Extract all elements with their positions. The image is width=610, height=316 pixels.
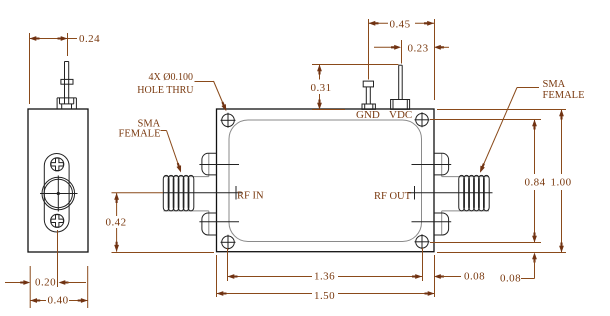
- label GND: [356, 109, 380, 121]
- main housing lid (inner rounded rectangle): [229, 120, 422, 242]
- left view top flange screw: [51, 158, 64, 171]
- svg-text:HOLE THRU: HOLE THRU: [137, 85, 194, 96]
- svg-text:0.45: 0.45: [390, 18, 411, 30]
- svg-text:4X Ø0.100: 4X Ø0.100: [149, 72, 193, 83]
- right SMA lug centerline marks: [412, 165, 452, 222]
- dimension 0.20 (bottom of left view): [5, 230, 86, 308]
- dimension 1.00 (right side): [437, 110, 572, 253]
- svg-text:0.84: 0.84: [525, 177, 546, 189]
- svg-text:1.50: 1.50: [314, 290, 335, 302]
- svg-text:0.23: 0.23: [408, 42, 429, 54]
- main housing outline: [217, 109, 435, 252]
- svg-text:FEMALE: FEMALE: [543, 90, 585, 101]
- right SMA flange plate and lugs: [441, 153, 443, 235]
- dimension 0.40 (bottom of left view): [30, 266, 87, 308]
- label VDC: [389, 109, 412, 121]
- dimension 0.08 (horizontal, bottom right): [434, 271, 485, 283]
- corner screw top-right: [415, 112, 430, 127]
- corner screw bottom-left: [221, 235, 236, 250]
- svg-text:0.24: 0.24: [79, 33, 100, 45]
- dimension 0.08 (vertical, right side): [500, 253, 537, 285]
- label 4X hole callout: [137, 72, 228, 112]
- svg-text:0.31: 0.31: [311, 82, 332, 94]
- dimension 1.36 (bottom): [228, 248, 423, 283]
- svg-text:SMA: SMA: [543, 79, 566, 90]
- right connector centerline: [408, 186, 493, 200]
- dimension 0.31 (pin height): [311, 65, 399, 110]
- left view SMA connector circle: [40, 176, 78, 212]
- corner screw bottom-right: [415, 234, 430, 249]
- dimension 0.84 (right side): [430, 120, 546, 243]
- left SMA flange plate and lugs: [208, 153, 210, 235]
- GND pin: [362, 81, 375, 109]
- svg-text:RF OUT: RF OUT: [374, 191, 412, 202]
- left connector centerline: [112, 186, 243, 200]
- corner screw top-left: [221, 113, 236, 128]
- left SMA lug bumps: [202, 153, 217, 235]
- left SMA threads: [163, 175, 194, 211]
- svg-text:1.00: 1.00: [551, 177, 572, 189]
- label SMA FEMALE (left): [119, 119, 184, 174]
- left SMA lug centerline marks: [199, 165, 239, 222]
- right SMA threads: [459, 175, 489, 211]
- dimension 1.50 (bottom): [217, 255, 435, 302]
- svg-text:0.08: 0.08: [464, 271, 485, 283]
- left view connector flange obround: [44, 154, 69, 233]
- svg-text:FEMALE: FEMALE: [119, 129, 161, 140]
- left SMA barrel: [164, 177, 209, 211]
- svg-text:0.20: 0.20: [35, 277, 56, 289]
- svg-text:RF IN: RF IN: [237, 191, 264, 202]
- svg-text:0.40: 0.40: [48, 295, 69, 307]
- right SMA barrel: [442, 177, 489, 211]
- svg-text:GND: GND: [356, 109, 380, 121]
- dimension 0.45 (top): [369, 18, 435, 100]
- label RF IN: [237, 191, 264, 202]
- label RF OUT: [374, 191, 412, 202]
- left view bottom flange screw: [51, 214, 64, 227]
- dimension 0.23 (top): [374, 40, 449, 64]
- label SMA FEMALE (right): [478, 79, 585, 174]
- svg-text:0.08: 0.08: [500, 273, 521, 285]
- dimension 0.42 (between views): [106, 193, 215, 253]
- left view pin stack (side view of GND/VDC pins): [57, 62, 76, 110]
- right SMA lug bumps: [434, 153, 449, 235]
- svg-text:VDC: VDC: [389, 109, 412, 121]
- svg-text:1.36: 1.36: [314, 271, 335, 283]
- dimension 0.24 (top of left view): [30, 33, 101, 104]
- left view housing body: [28, 109, 88, 252]
- VDC pin: [391, 65, 410, 109]
- svg-text:0.42: 0.42: [106, 217, 127, 229]
